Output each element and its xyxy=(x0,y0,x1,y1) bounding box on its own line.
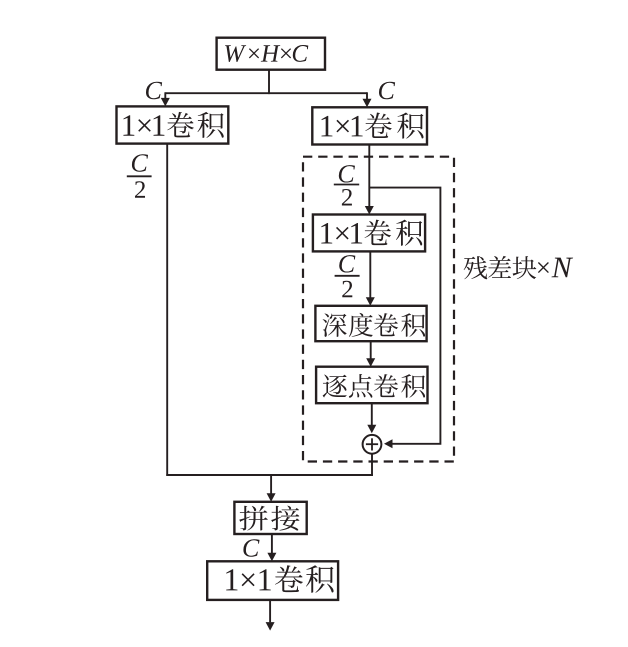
box 深度卷积 (depthwise conv) xyxy=(315,306,426,341)
dashed residual-block boundary xyxy=(303,157,454,462)
label C (right branch) xyxy=(379,82,395,99)
arrow into left 1×1卷积 box xyxy=(161,92,170,106)
label 残差块×N xyxy=(464,256,573,279)
label C (below 拼接) xyxy=(243,539,259,556)
wire left branch vertical (long) xyxy=(166,144,168,476)
label C/2 (inside residual block, lower) xyxy=(335,255,360,297)
box left 1×1卷积 xyxy=(117,106,229,143)
arrow 深度卷积 to 逐点卷积 xyxy=(366,341,375,367)
wire branch horizontal xyxy=(165,92,367,94)
arrow output xyxy=(266,600,275,631)
arrow right branch into inner 1×1卷积 xyxy=(365,145,374,215)
wire merge horizontal xyxy=(166,474,373,476)
wire adder down to merge line xyxy=(371,453,373,476)
adder ⊕ (element-wise sum) xyxy=(363,435,382,454)
wire from W×H×C box down to branch point xyxy=(268,70,270,94)
arrow inner 1×1卷积 to 深度卷积 xyxy=(366,251,375,305)
label C/2 (inside residual block, upper) xyxy=(334,165,359,205)
arrow 逐点卷积 to adder xyxy=(367,403,376,433)
label C (left branch) xyxy=(146,82,162,99)
label C/2 (left branch) xyxy=(127,154,152,198)
wire residual skip connection xyxy=(369,188,440,449)
arrow 拼接 to bottom 1×1卷积 xyxy=(267,534,276,561)
box W×H×C (input) xyxy=(217,38,325,70)
box right 1×1卷积 xyxy=(312,107,427,144)
box 拼接 (concat) xyxy=(234,502,306,534)
arrow merge to 拼接 xyxy=(267,475,276,502)
box 逐点卷积 (pointwise conv) xyxy=(316,367,427,404)
box inner 1×1卷积 xyxy=(313,215,425,252)
arrow into right 1×1卷积 box xyxy=(363,92,372,107)
box bottom 1×1卷积 (output) xyxy=(207,561,338,600)
